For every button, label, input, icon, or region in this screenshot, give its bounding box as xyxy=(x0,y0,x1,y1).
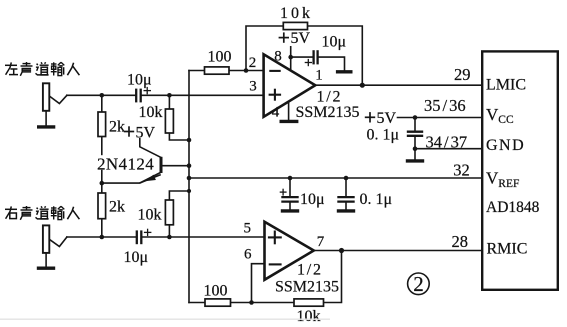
svg-text:2N4124: 2N4124 xyxy=(97,155,154,174)
svg-text:5: 5 xyxy=(244,221,252,237)
svg-text:28: 28 xyxy=(452,232,469,251)
svg-text:5V: 5V xyxy=(291,30,311,47)
svg-text:10μ: 10μ xyxy=(300,191,325,208)
svg-text:2: 2 xyxy=(413,272,424,296)
svg-text:10k: 10k xyxy=(139,104,163,121)
svg-text:1: 1 xyxy=(315,68,323,84)
svg-text:GND: GND xyxy=(486,137,525,154)
svg-text:7: 7 xyxy=(317,234,325,250)
svg-text:10μ: 10μ xyxy=(124,249,149,266)
svg-text:100: 100 xyxy=(204,283,228,300)
svg-text:10μ: 10μ xyxy=(322,34,347,51)
svg-text:2: 2 xyxy=(249,55,256,71)
svg-text:0. 1μ: 0. 1μ xyxy=(367,127,400,144)
svg-text:5V: 5V xyxy=(136,125,156,142)
svg-text:1/2: 1/2 xyxy=(297,262,321,279)
svg-text:10k: 10k xyxy=(297,308,321,325)
svg-text:6: 6 xyxy=(244,247,252,263)
svg-text:0. 1μ: 0. 1μ xyxy=(360,191,393,208)
svg-text:RMIC: RMIC xyxy=(487,241,528,258)
svg-text:10μ: 10μ xyxy=(127,72,152,89)
svg-text:1/2: 1/2 xyxy=(317,89,341,106)
svg-text:2k: 2k xyxy=(109,199,125,216)
svg-text:34/37: 34/37 xyxy=(426,133,468,152)
svg-text:29: 29 xyxy=(454,65,471,84)
svg-text:SSM2135: SSM2135 xyxy=(275,279,339,296)
svg-text:AD1848: AD1848 xyxy=(486,199,540,216)
svg-text:100: 100 xyxy=(208,49,232,66)
svg-text:4: 4 xyxy=(272,105,280,121)
svg-text:8: 8 xyxy=(274,49,282,65)
svg-text:10k: 10k xyxy=(280,5,313,22)
svg-text:3: 3 xyxy=(249,79,256,95)
svg-text:LMIC: LMIC xyxy=(486,77,526,94)
svg-text:32: 32 xyxy=(453,161,470,180)
svg-text:2k: 2k xyxy=(109,119,125,136)
svg-text:35/36: 35/36 xyxy=(424,96,466,115)
svg-text:5V: 5V xyxy=(377,110,397,127)
svg-text:SSM2135: SSM2135 xyxy=(296,104,360,121)
svg-text:10k: 10k xyxy=(138,207,162,224)
